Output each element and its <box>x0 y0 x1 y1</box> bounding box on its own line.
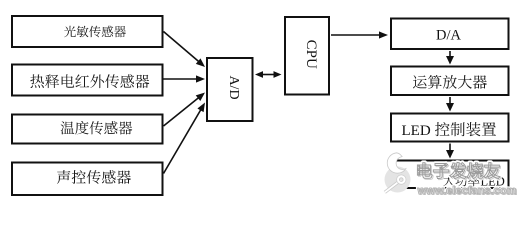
wire arrow D/A to 运算放大器 <box>446 51 454 65</box>
svg-text:CPU: CPU <box>303 40 319 69</box>
block 光敏传感器 (photosensor) <box>12 16 163 47</box>
wire double arrow A/D to CPU bus <box>255 71 282 78</box>
watermark text 电子发烧友 <box>417 162 501 179</box>
block 温度传感器 (temperature sensor) <box>12 115 163 144</box>
svg-text:www.elecfans.com: www.elecfans.com <box>417 185 517 197</box>
wire arrow LED控制装置 to 大功率LED <box>446 144 454 159</box>
svg-text:A/D: A/D <box>226 75 241 99</box>
block 声控传感器 (sound-control sensor) <box>12 163 163 196</box>
block 热释电红外传感器 (pyroelectric IR sensor) <box>12 65 163 96</box>
block CPU <box>285 17 329 95</box>
wire arrow 声控传感器 to A/D <box>164 103 206 174</box>
block 运算放大器 (op amplifier) <box>391 67 509 96</box>
block LED 控制装置 (LED control unit) <box>391 114 509 142</box>
wire arrow 运算放大器 to LED控制装置 <box>446 97 454 112</box>
watermark text www.elecfans.com <box>417 185 518 198</box>
svg-text:D/A: D/A <box>436 28 462 44</box>
wire arrow 温度传感器 to A/D <box>164 93 206 127</box>
wire arrow 光敏传感器 to A/D <box>164 32 206 68</box>
svg-text:LED: LED <box>402 123 431 139</box>
block A/D converter U-AD <box>207 58 253 121</box>
block 大功率LED (high-power LED) <box>391 161 509 189</box>
wire arrow 热释电红外传感器 to A/D <box>164 75 206 82</box>
wire arrow CPU to D/A <box>331 31 388 38</box>
watermark logo elecfans ball <box>385 153 411 193</box>
block D/A converter <box>391 19 509 50</box>
